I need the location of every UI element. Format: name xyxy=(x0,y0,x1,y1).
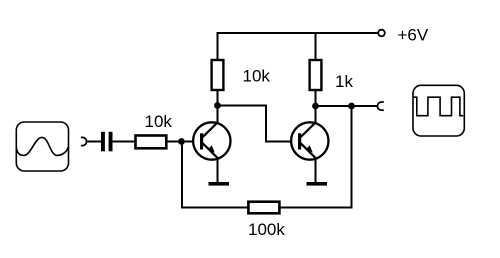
wire top +6V rail xyxy=(217,32,378,34)
transistor Q1 xyxy=(193,122,230,160)
node A junction dot Q1 collector xyxy=(214,102,221,109)
node D junction dot Q1 base xyxy=(178,138,185,145)
resistor R1 body xyxy=(212,60,224,90)
capacitor C1 plate right xyxy=(109,132,113,152)
output terminal open semicircle xyxy=(377,102,383,110)
wire R1 bottom lead to Q1 collector xyxy=(217,90,219,123)
wire Q1 base lead xyxy=(166,141,193,143)
signal source icon box with sine wave xyxy=(16,122,68,171)
wire output line xyxy=(316,105,378,107)
node B junction dot Q2 collector xyxy=(312,103,319,110)
input terminal open semicircle xyxy=(81,137,87,145)
svg-text:10k: 10k xyxy=(243,67,271,86)
wire Q1 emitter to ground xyxy=(217,158,219,183)
transistor Q2 xyxy=(291,122,328,160)
resistor R2 body xyxy=(310,60,322,90)
svg-text:10k: 10k xyxy=(145,112,173,131)
svg-text:100k: 100k xyxy=(248,220,285,239)
node C output junction dot xyxy=(348,103,355,110)
wire R1 top lead xyxy=(217,32,219,60)
resistor R3 body 10k input xyxy=(136,136,167,149)
resistor R4 body 100k xyxy=(248,202,279,214)
wire R2 bottom lead to Q2 collector xyxy=(315,90,317,123)
wire input terminal to capacitor xyxy=(88,141,102,143)
wire Q2 emitter to ground xyxy=(315,158,317,183)
capacitor C1 plate left xyxy=(101,132,105,152)
wire R2 top lead xyxy=(315,32,317,60)
wire output node down to bottom rail xyxy=(280,106,352,208)
wire bottom rail left segment xyxy=(182,142,249,208)
wire capacitor to R3 xyxy=(113,141,136,143)
svg-text:+6V: +6V xyxy=(398,26,429,45)
svg-text:1k: 1k xyxy=(335,72,353,91)
oscilloscope icon box with square wave xyxy=(413,85,464,136)
ground Q2 xyxy=(307,182,328,186)
wire cross-coupling Q1 collector to Q2 base xyxy=(218,106,292,142)
power terminal +6V open circle xyxy=(378,30,385,37)
ground Q1 xyxy=(209,182,230,186)
